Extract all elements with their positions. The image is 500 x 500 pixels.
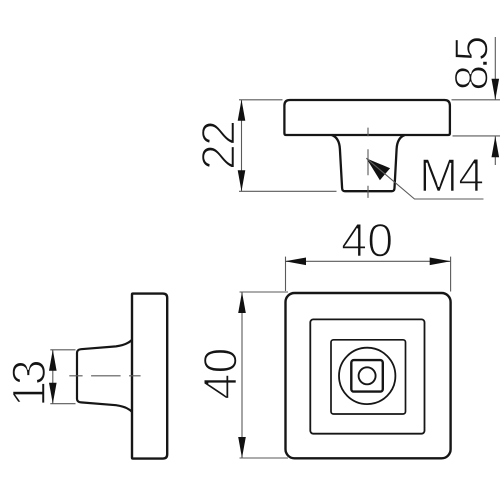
dim 40 top: dimension line xyxy=(285,260,451,262)
dim 40 left: dimension line xyxy=(241,292,243,458)
dim 40 top: arrow right xyxy=(430,258,451,266)
svg-text:40: 40 xyxy=(341,213,393,266)
dim 8.5: arrow down xyxy=(492,79,500,100)
M4 leader arrow xyxy=(366,158,390,180)
small square recess xyxy=(351,360,383,392)
dim 13: extension line top xyxy=(50,349,75,351)
dim 13: dimension line xyxy=(52,350,54,404)
knob cap outline (side view) xyxy=(284,100,450,135)
dim 40 left: extension line top xyxy=(240,291,289,293)
dim 40 left: arrow down xyxy=(238,437,246,458)
second square step xyxy=(310,319,424,433)
screw hole circle xyxy=(359,367,376,384)
dim 22: arrow up xyxy=(238,100,246,121)
svg-text:22: 22 xyxy=(192,122,245,170)
dim 8.5: extension line bottom xyxy=(453,135,500,137)
dim 13: extension line bottom xyxy=(50,403,75,405)
dim 40 top: extension line right xyxy=(450,257,452,292)
stem centerline (dashed) xyxy=(367,128,369,199)
dim 22: extension line bottom xyxy=(239,190,337,192)
dim 8.5: arrow up xyxy=(492,136,500,157)
outer square (40x40 face) xyxy=(286,293,451,458)
dim 40 top: arrow left xyxy=(285,258,306,266)
svg-text:40: 40 xyxy=(194,347,247,399)
dim 22: dimension line xyxy=(241,100,243,192)
dim 13: arrow down xyxy=(49,383,57,404)
third square step xyxy=(331,340,406,414)
dim 22: arrow down xyxy=(238,170,246,191)
dim 22: extension line top xyxy=(239,99,283,101)
svg-text:13: 13 xyxy=(2,360,55,407)
dim 8.5: dimension line lower segment xyxy=(494,136,496,165)
dim 8.5: extension line top xyxy=(452,99,500,101)
dim 40 top: extension line left xyxy=(285,257,287,291)
knob stem outline (side view) xyxy=(332,135,405,191)
M4 leader line xyxy=(366,158,483,199)
circle boss xyxy=(339,348,395,404)
knob stem outline (left view) xyxy=(77,340,132,412)
svg-text:M4: M4 xyxy=(419,149,484,202)
dim 40 left: extension line bottom xyxy=(240,457,289,459)
dim 13: arrow up xyxy=(49,350,57,371)
dim 8.5: dimension line upper segment xyxy=(494,37,496,100)
svg-text:8.5: 8.5 xyxy=(445,37,498,91)
knob cap outline (left view) xyxy=(132,294,167,459)
dim 40 left: arrow up xyxy=(238,292,246,313)
stem centerline (dashed, left view) xyxy=(69,375,140,377)
